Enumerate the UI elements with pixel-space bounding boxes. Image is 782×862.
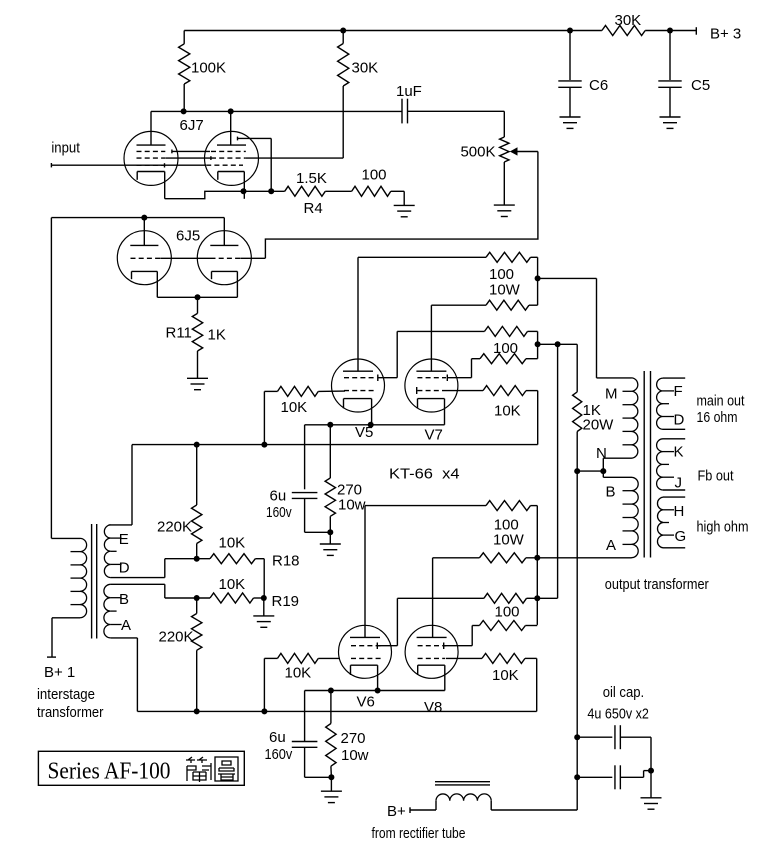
svg-text:D: D [674, 412, 685, 429]
tube V3 6J5 envelope [117, 231, 171, 285]
wire 10K V6 down to bottom bus [263, 658, 265, 711]
resistor 270 10w upper [329, 425, 331, 478]
node top-rail / 30K-a junction [340, 28, 346, 34]
svg-text:270: 270 [341, 730, 366, 747]
wire 6J5 plate bus [51, 217, 224, 219]
wire V5 plate to 100 10W a [358, 256, 486, 258]
svg-text:D: D [119, 560, 130, 577]
svg-text:B+ 1: B+ 1 [44, 664, 75, 681]
tube V3 plate [143, 218, 145, 246]
wire A lead to bottom bus [111, 637, 138, 639]
wire bank right column lower [531, 505, 538, 507]
node V6 cathode [375, 688, 381, 694]
wire 500K to ground [503, 162, 505, 205]
ground below 270 lower [321, 790, 342, 792]
svg-text:oil cap.: oil cap. [603, 684, 645, 701]
svg-text:4u 650v x2: 4u 650v x2 [587, 706, 649, 723]
tube V1 cathode [137, 171, 165, 173]
node 270 upper [327, 422, 333, 428]
svg-text:6u: 6u [269, 729, 286, 746]
node R11 junction [195, 294, 201, 300]
svg-text:160v: 160v [265, 746, 293, 763]
output transformer secondary H-G [663, 496, 685, 498]
capacitor 1uF coupling [401, 99, 403, 124]
svg-text:100K: 100K [191, 60, 226, 77]
svg-text:10K: 10K [219, 535, 246, 552]
svg-text:10W: 10W [489, 282, 521, 299]
capacitor oil 4u a [577, 736, 612, 738]
output transformer primary M winding [597, 377, 632, 379]
node 220K upper on bus [194, 442, 200, 448]
svg-text:E: E [119, 531, 129, 548]
output transformer secondary F-D [663, 377, 685, 379]
resistor 10K grid V7 [445, 390, 483, 392]
wire feedback column from screens [557, 344, 559, 598]
svg-text:B: B [119, 591, 129, 608]
tube V2 grid rows [211, 150, 246, 152]
node suppressor link junction [268, 188, 274, 194]
svg-text:1uF: 1uF [396, 83, 422, 100]
node screen junction a [535, 341, 541, 347]
wire V3 grid to V4 grid [160, 257, 210, 259]
node oil cap ground junction [648, 768, 654, 774]
wire V2 grid row2 to 30K-a bottom [246, 157, 343, 159]
wire screen bank right column [537, 331, 539, 358]
wire V1 row2 to V2 row2 [166, 157, 211, 159]
svg-text:F: F [674, 383, 683, 400]
wire 6J5 bus down to interstage primary [50, 218, 52, 539]
tube V7 screen tick [446, 375, 448, 382]
resistor 220K lower [196, 598, 198, 614]
svg-text:interstage: interstage [37, 686, 95, 703]
ground below 500K [494, 204, 515, 206]
resistor 30K-a (plate load V2) [342, 31, 344, 44]
tube V1 6J7 envelope [124, 131, 178, 185]
node V3 plate lead [141, 215, 147, 221]
tube V2 plate [230, 111, 232, 145]
interstage transformer core [91, 524, 93, 639]
tube V4 cathode [212, 270, 238, 272]
svg-text:30K: 30K [615, 12, 642, 29]
resistor 1K 20W [576, 344, 578, 392]
resistor 100 screen V5 [396, 331, 398, 377]
node 220K lower top [194, 595, 200, 601]
svg-text:10K: 10K [285, 665, 312, 682]
choke core [435, 781, 490, 783]
resistor 220K upper [196, 445, 198, 505]
output transformer secondary K-J [663, 438, 685, 440]
wire 1uF to 500K pot [408, 110, 505, 112]
wire 6J7 plate bus [151, 110, 402, 112]
tube V1 grid tick [164, 163, 166, 167]
svg-text:R18: R18 [272, 553, 300, 570]
svg-text:B: B [606, 484, 616, 501]
wire V4 grid to wiper line [240, 257, 265, 259]
wire 100 10W a right end [531, 256, 538, 258]
wire 10K V7 down to bus [537, 391, 539, 445]
resistor 100 10W c [486, 501, 531, 511]
wire V7 plate to 100 10W b [431, 304, 486, 306]
tube V1 plate [150, 111, 152, 145]
interstage transformer primary coil [51, 537, 80, 539]
wire junction to output transformer M [538, 277, 597, 279]
node 10K V6 on bus [261, 708, 267, 714]
resistor 100 10W b [486, 300, 529, 310]
node 220K lower on bus [194, 708, 200, 714]
svg-text:Series AF-100: Series AF-100 [48, 759, 171, 785]
tube V8 KT-66 envelope [405, 625, 458, 678]
node 10K V5 on bus [261, 442, 267, 448]
wire bottom bias bus [137, 710, 536, 712]
ground below C6 [560, 116, 581, 118]
tube V8 grid rows [418, 645, 447, 647]
capacitor 6u 160v upper [304, 425, 306, 490]
terminal B+1 [51, 618, 53, 657]
wire D lead to R18 [111, 577, 165, 579]
wire rail to 30K-b [570, 30, 602, 32]
tube V3 grid row [131, 257, 161, 259]
resistor R11 1K [197, 297, 199, 313]
svg-text:10K: 10K [281, 399, 308, 416]
svg-text:100: 100 [362, 167, 387, 184]
node upper plate junction [535, 275, 541, 281]
wire N lead [602, 458, 604, 471]
ground after 100 [394, 204, 415, 206]
tube V6 grid rows [351, 645, 383, 647]
wire D lead up to R18 row [164, 559, 166, 578]
svg-text:10K: 10K [494, 403, 521, 420]
svg-text:10K: 10K [492, 667, 519, 684]
svg-text:H: H [674, 503, 685, 520]
svg-text:220K: 220K [159, 629, 194, 646]
tube V6 screen tick [376, 643, 378, 650]
resistor 100 screen V6 [396, 598, 398, 645]
resistor 100 screen V8 [471, 626, 473, 646]
svg-text:N: N [596, 445, 607, 462]
node R19 right / ground [261, 595, 267, 601]
svg-text:output transformer: output transformer [605, 576, 709, 593]
wire 1K junction to N/B tap [577, 470, 603, 472]
svg-text:100: 100 [495, 604, 520, 621]
wire R18 right end down to R19 [255, 558, 264, 560]
choke from rectifier [410, 809, 436, 811]
svg-text:500K: 500K [460, 144, 495, 161]
tube V5 screen tick [377, 375, 379, 382]
node screen junction b [555, 341, 561, 347]
svg-text:1K: 1K [208, 327, 226, 344]
svg-text:K: K [674, 444, 684, 461]
ground below 270 upper [320, 543, 341, 545]
node oil cap top [574, 734, 580, 740]
svg-text:6J5: 6J5 [176, 228, 200, 245]
node cap/270 junction lower [328, 774, 334, 780]
wire B winding lead [602, 471, 604, 477]
wire V6/V8 cathode bus [305, 690, 445, 692]
svg-text:V6: V6 [357, 694, 375, 711]
interstage secondary winding E-D [104, 525, 110, 578]
wire screen junction to 1K 20W [538, 343, 578, 345]
terminal B+ [409, 807, 411, 813]
tube V2 6J7 envelope [205, 131, 259, 185]
svg-text:10w: 10w [341, 747, 369, 764]
tube V4 grid row [211, 257, 241, 259]
wire 10K V5 down to feedback bus [263, 391, 265, 444]
wire upper bias bus [132, 444, 538, 446]
resistor R19 10K [210, 593, 254, 603]
wire 10K V8 down to bottom bus [536, 658, 538, 711]
svg-text:high ohm: high ohm [697, 519, 749, 536]
resistor 100 screen V7 [471, 359, 473, 378]
svg-text:A: A [606, 537, 616, 554]
wire B+ bottom rail [491, 809, 577, 811]
tube V7 cathode [418, 398, 445, 400]
tube V2 grid tick row2 [210, 156, 212, 160]
svg-text:30K: 30K [352, 60, 379, 77]
node V2 plate lead on bus [228, 108, 234, 114]
resistor R4 1.5K [285, 186, 326, 196]
wire 6J5 cathode bus [157, 296, 237, 298]
resistor 100 10W d [432, 558, 434, 638]
tube V1 grid rows [137, 150, 166, 152]
wire 100 to ground [391, 190, 404, 192]
svg-text:10W: 10W [493, 532, 525, 549]
svg-text:C6: C6 [589, 77, 608, 94]
tube V7 grid left tick [416, 387, 418, 394]
node cap/270 junction upper [327, 529, 333, 535]
wire wiper to V4 grid [265, 152, 538, 259]
capacitor C5 [669, 31, 671, 81]
title CJK jian [186, 757, 211, 782]
svg-text:1.5K: 1.5K [296, 170, 327, 187]
svg-text:10K: 10K [219, 576, 246, 593]
wire B lead down to R19 row [164, 584, 166, 598]
svg-text:20W: 20W [583, 417, 615, 434]
svg-text:J: J [675, 475, 683, 492]
output transformer primary B winding [632, 477, 639, 557]
resistor 270 10w lower [330, 691, 332, 724]
title CJK tu [215, 757, 238, 781]
wire bus to interstage E lead [131, 445, 133, 525]
resistor R18 10K [210, 554, 255, 564]
resistor 30K-b (B+3 dropper) [602, 26, 645, 36]
wire V5/V7 cathode bus [305, 424, 445, 426]
svg-text:6u: 6u [270, 488, 287, 505]
node 220K upper bottom [194, 556, 200, 562]
tube V1 suppressor tick and link to V2 [171, 150, 173, 154]
svg-text:input: input [51, 140, 80, 157]
node V5 cathode [368, 422, 374, 428]
svg-text:transformer: transformer [37, 704, 104, 721]
svg-text:M: M [605, 386, 618, 403]
wire R4 to 100 [325, 190, 351, 192]
capacitor oil 4u b [577, 776, 612, 778]
tube V7 plate bar [416, 370, 446, 372]
node transformer A wire junction [534, 555, 540, 561]
tube V3 cathode [132, 270, 158, 272]
svg-text:from rectifier tube: from rectifier tube [372, 825, 466, 842]
wire V6 plate to 100 10W c [365, 505, 486, 507]
tube V6 cathode [351, 664, 378, 666]
svg-text:KT-66 x4: KT-66 x4 [389, 466, 460, 483]
svg-text:main out: main out [697, 393, 746, 410]
node N/B tap junction [600, 468, 606, 474]
ground at R19 [253, 615, 274, 617]
svg-text:100: 100 [489, 266, 514, 283]
wire 30K-b to C5 node and B+3 terminal [645, 30, 696, 32]
resistor 10K grid V6 [264, 657, 277, 659]
wiper arrow of 500K [510, 147, 518, 155]
capacitor 6u 160v lower [304, 691, 306, 742]
svg-text:16 ohm: 16 ohm [697, 409, 738, 426]
node C5 junction [667, 28, 673, 34]
resistor 10K grid V8 [446, 657, 482, 659]
interstage secondary winding B-A [104, 584, 111, 638]
wire top B+ rail [184, 30, 570, 32]
wire 1K junction down to oil caps [576, 471, 578, 810]
svg-text:R4: R4 [304, 200, 323, 217]
svg-text:B+: B+ [387, 803, 406, 820]
resistor 100 10W a [486, 252, 531, 262]
svg-text:Fb out: Fb out [698, 468, 735, 485]
tube V8 screen tick [443, 643, 445, 650]
wire cathode junction to R4 [244, 190, 285, 192]
node 100K to plate bus [181, 108, 187, 114]
tube V4 plate [223, 218, 225, 246]
resistor 10K grid V5 [264, 390, 277, 392]
node cathode junction V1/V2 [241, 188, 247, 194]
tube V5 plate bar [343, 370, 373, 372]
svg-text:A: A [121, 617, 131, 634]
tube V2 cathode [218, 171, 245, 173]
tube V5 grid rows [344, 377, 376, 379]
svg-text:R19: R19 [272, 593, 300, 610]
capacitor C6 [569, 31, 571, 81]
tube V8 plate bar [417, 636, 447, 638]
tube V5 KT-66 envelope [332, 359, 385, 412]
output transformer core [643, 371, 645, 558]
wire A-row to output transformer [526, 557, 632, 559]
ground below oil caps [641, 797, 662, 799]
svg-text:R11: R11 [166, 325, 192, 342]
tube V2 top cap tick and wire [237, 137, 239, 141]
tube V7 grid rows [417, 377, 446, 379]
svg-text:B+ 3: B+ 3 [710, 26, 741, 43]
potentiometer 500K [500, 137, 509, 162]
ground below R11 [187, 377, 208, 379]
tube V7 KT-66 envelope [405, 359, 458, 412]
node oil cap bottom [574, 774, 580, 780]
resistor 100K top-left (plate load V1) [183, 31, 185, 44]
svg-text:V7: V7 [425, 427, 443, 444]
tube V4 6J5 envelope [197, 231, 251, 285]
svg-text:160v: 160v [266, 504, 292, 521]
tube V6 plate bar [350, 636, 380, 638]
wire V1 cathode to junction [165, 191, 244, 198]
svg-text:10w: 10w [338, 497, 366, 514]
tube V5 cathode [344, 398, 372, 400]
title box Series AF-100 [38, 751, 244, 785]
svg-text:6J7: 6J7 [180, 117, 204, 134]
svg-text:220K: 220K [157, 519, 192, 536]
svg-text:C5: C5 [691, 77, 710, 94]
svg-text:G: G [675, 528, 687, 545]
node 1K bottom junction [574, 468, 580, 474]
svg-text:V8: V8 [424, 699, 442, 716]
tube V8 cathode [418, 664, 445, 666]
tube V6 KT-66 envelope [339, 625, 392, 678]
resistor 100 cathode [352, 186, 391, 196]
node screen junction lower [534, 595, 540, 601]
wire B lead to R19 [111, 583, 165, 585]
node C6 / 30K-b junction [567, 28, 573, 34]
node 270 lower [328, 688, 334, 694]
ground below C5 [660, 116, 681, 118]
